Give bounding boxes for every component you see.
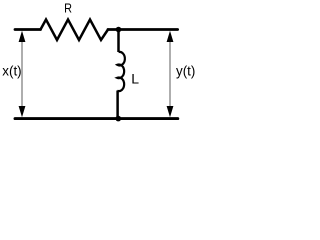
svg-text:R: R <box>64 0 72 15</box>
node: bottom junction dot <box>116 116 122 122</box>
wire: top-right segment <box>108 28 178 31</box>
arrow x(t) shaft <box>21 40 23 108</box>
wire: top-left segment <box>15 28 41 31</box>
RL circuit schematic <box>0 0 200 133</box>
label R <box>64 0 72 15</box>
arrow y(t) shaft <box>169 40 171 108</box>
arrow x(t) head down <box>19 106 26 117</box>
svg-text:x(t): x(t) <box>2 64 21 79</box>
node: top junction dot <box>116 27 122 33</box>
wire: inductor top lead <box>117 30 120 53</box>
svg-text:y(t): y(t) <box>176 64 195 79</box>
arrow y(t) head down <box>167 106 174 117</box>
svg-text:L: L <box>131 71 139 87</box>
wire: inductor bottom lead <box>116 91 119 119</box>
arrow x(t) head up <box>19 31 26 42</box>
wire: bottom <box>15 117 178 120</box>
inductor L1 coil <box>117 52 125 91</box>
arrow y(t) head up <box>167 31 174 42</box>
resistor R1 zigzag <box>41 20 109 41</box>
